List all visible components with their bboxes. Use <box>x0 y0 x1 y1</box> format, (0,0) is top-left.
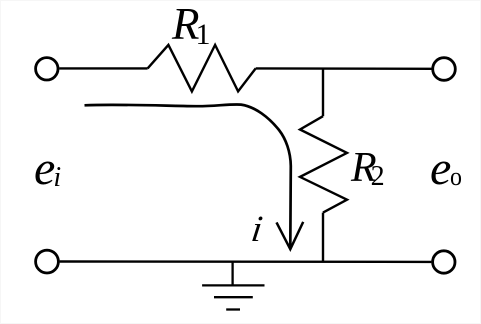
wire top-left to R1 <box>59 67 147 69</box>
terminal bottom-right <box>433 251 455 273</box>
label R2 <box>351 144 385 192</box>
label e_i <box>34 141 61 196</box>
terminal top-right <box>433 58 456 81</box>
terminal top-left <box>36 58 58 80</box>
label R1 <box>172 0 211 50</box>
label i <box>249 208 265 251</box>
node junction top <box>322 69 324 117</box>
resistor R1 <box>148 45 256 92</box>
wire bottom rail <box>60 260 432 263</box>
current path curve <box>85 104 291 246</box>
wire R2 to bottom rail <box>322 213 324 262</box>
label e_o <box>430 141 463 196</box>
wire R1 to top-right terminal <box>256 67 432 70</box>
terminal bottom-left <box>36 250 59 273</box>
arrowhead of current i <box>277 222 304 249</box>
ground <box>202 262 264 310</box>
resistor R2 <box>300 116 347 212</box>
